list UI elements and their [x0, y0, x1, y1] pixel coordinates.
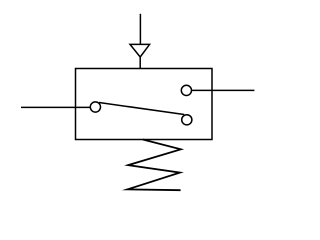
- short stem from arrow apex to switch body: [139, 57, 141, 69]
- switch body rectangle: [76, 69, 213, 140]
- movable contact lever: [99, 103, 184, 115]
- return spring (zigzag): [127, 140, 180, 191]
- actuator plunger stem (vertical wire above arrow): [139, 14, 141, 45]
- actuator arrowhead (open triangle pointing down): [130, 44, 150, 57]
- right lead wire: [192, 89, 255, 91]
- left pole contact circle: [90, 102, 100, 112]
- upper right contact circle: [181, 85, 191, 95]
- left lead wire: [21, 106, 90, 108]
- lower right contact circle: [182, 115, 192, 125]
